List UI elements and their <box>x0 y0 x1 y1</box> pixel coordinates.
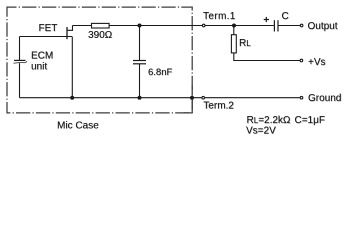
node: top rail / 6.8nF junction <box>138 24 142 28</box>
svg-text:Output: Output <box>308 21 338 32</box>
mic case dashed border <box>7 7 192 113</box>
svg-text:Vs=2V: Vs=2V <box>246 126 276 137</box>
wire: resistor to C cap (top rail) <box>109 25 274 27</box>
capacitor 6.8nF top plate <box>133 60 146 62</box>
capacitor C plus sign <box>264 19 269 21</box>
wire: C to output <box>279 25 301 27</box>
svg-text:6.8nF: 6.8nF <box>148 67 172 78</box>
svg-text:ECM: ECM <box>31 51 53 62</box>
svg-text:Ground: Ground <box>308 93 341 104</box>
ground rail (bottom) <box>20 97 301 99</box>
resistor 390ohm body <box>92 23 110 28</box>
FET drain lead <box>67 26 73 31</box>
svg-text:C: C <box>282 11 289 22</box>
border dash segments near case ground junction <box>191 86 193 96</box>
capacitor 6.8nF bottom plate <box>133 63 146 65</box>
electret capsule top plate <box>14 59 26 61</box>
wire: RL down and right to +Vs <box>234 53 300 61</box>
svg-text:Term.1: Term.1 <box>203 11 236 22</box>
svg-text:unit: unit <box>31 61 47 72</box>
wire: junction down to RL <box>233 26 235 36</box>
svg-text:390Ω: 390Ω <box>88 30 113 41</box>
svg-text:C=1μF: C=1μF <box>295 115 326 126</box>
ECM unit box: left edge lower <box>19 63 21 97</box>
electret capsule diaphragm (curved plate) <box>14 61 27 63</box>
svg-text:Term.2: Term.2 <box>203 101 234 112</box>
capacitor C left plate <box>273 20 275 31</box>
svg-text:+Vs: +Vs <box>308 57 326 68</box>
wire: drain to resistor <box>73 25 92 27</box>
svg-text:FET: FET <box>39 23 58 34</box>
FET source / ECM box right edge <box>71 37 73 98</box>
terminal circle Ground <box>300 96 303 99</box>
Term.1 terminal circle <box>202 24 205 27</box>
capacitor C right plate <box>277 20 279 31</box>
node: case connection on ground rail <box>190 96 194 100</box>
resistor RL body <box>231 35 236 53</box>
terminal circle +Vs <box>300 59 303 62</box>
svg-text:RL=2.2kΩ: RL=2.2kΩ <box>247 115 291 126</box>
node: top rail / RL junction <box>232 24 236 28</box>
node: 6.8nF on ground rail <box>138 96 142 100</box>
node: FET source on ground rail <box>70 96 74 100</box>
terminal circle Output <box>300 24 303 27</box>
wire: junction down to 6.8nF cap <box>139 26 141 61</box>
ECM unit box: top edge / gate wire <box>20 36 73 38</box>
wire: 6.8nF to ground rail <box>139 64 141 98</box>
svg-text:Mic Case: Mic Case <box>57 120 99 131</box>
svg-text:RL: RL <box>239 38 251 49</box>
FET gate/channel bar <box>66 27 68 39</box>
Term.2 terminal circle <box>202 96 205 99</box>
ECM unit box: left edge upper <box>19 37 21 61</box>
